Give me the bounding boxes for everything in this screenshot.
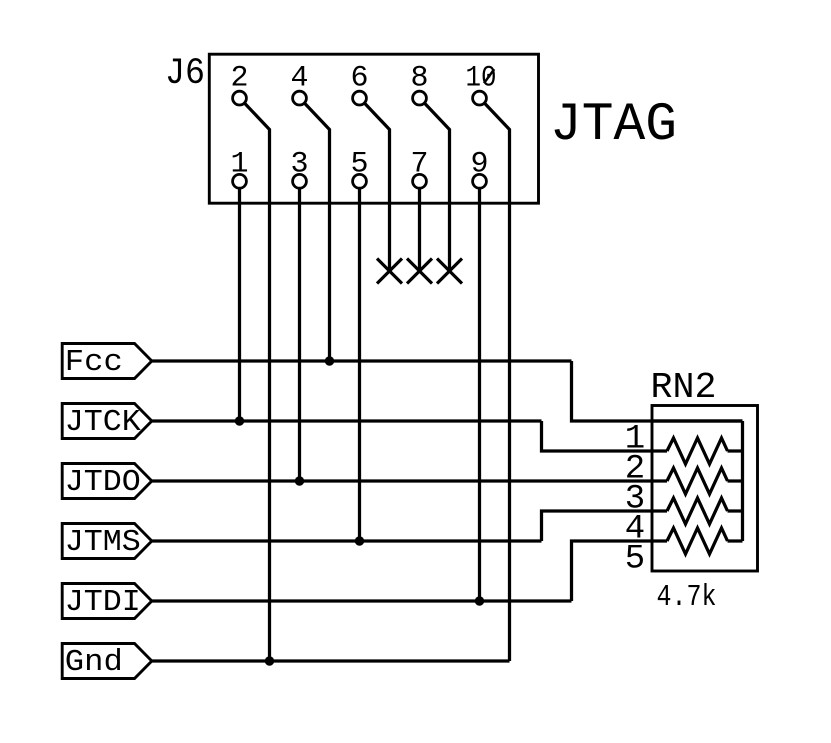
wire from pin 9 straight down <box>478 188 481 601</box>
wire from pin 7 straight down <box>418 188 421 271</box>
wire net JTCK horizontal <box>152 419 542 422</box>
pin 10 of J6 (top row) <box>466 61 497 105</box>
wire from pin 2: diagonal then vertical down <box>244 103 269 661</box>
svg-text:J6: J6 <box>165 53 205 95</box>
wire net Gnd horizontal <box>152 659 510 662</box>
wire net JTDO horizontal to RN2 pin 3 <box>152 479 667 482</box>
resistor RN2 element pin 5 to common <box>667 528 743 554</box>
wire net JTDI horizontal <box>152 599 572 602</box>
wire net JTDI step up to RN2 pin 5 <box>572 541 668 601</box>
resistor RN2 element pin 3 to common <box>667 468 743 494</box>
pin 4 of J6 (top row) <box>290 61 308 105</box>
svg-text:JTDO: JTDO <box>65 465 141 500</box>
pin 6 of J6 (top row) <box>350 61 368 105</box>
junction Fcc/pin4 <box>325 356 334 365</box>
no-connect X on pin 6 <box>377 259 402 284</box>
net flag Fcc <box>62 344 152 381</box>
wire from pin 4: diagonal then vertical down <box>304 103 329 361</box>
svg-text:4.7k: 4.7k <box>657 580 717 615</box>
pin 7 of J6 (bottom row) <box>410 148 428 189</box>
wire from pin 5 straight down <box>358 188 361 541</box>
wire net JTMS horizontal <box>152 539 542 542</box>
svg-text:Fcc: Fcc <box>65 345 123 380</box>
pin 1 of J6 (bottom row) <box>230 148 248 189</box>
wire net JTMS step up to RN2 pin 4 <box>542 511 668 541</box>
net flag JTCK <box>62 404 152 441</box>
RN2 pin 1 common lead <box>652 419 743 422</box>
resistor network RN2 body <box>652 406 758 572</box>
pin 5 of J6 (bottom row) <box>350 148 368 189</box>
RN2 common bus <box>741 421 744 541</box>
svg-text:JTMS: JTMS <box>65 525 141 560</box>
junction Gnd/pin2 <box>265 656 274 665</box>
junction JTDO/pin3 <box>295 476 304 485</box>
net flag JTDO <box>62 464 152 501</box>
wire from pin 3 straight down <box>298 188 301 481</box>
net flag JTDI <box>62 584 152 621</box>
pin 2 of J6 (top row) <box>230 61 248 105</box>
wire from pin 6: diagonal then vertical down <box>364 103 389 271</box>
wire from pin 1 straight down <box>238 188 241 421</box>
wire from pin 8: diagonal then vertical down <box>424 103 449 271</box>
pin 8 of J6 (top row) <box>410 61 428 105</box>
resistor RN2 element pin 4 to common <box>667 498 743 524</box>
pin 3 of J6 (bottom row) <box>290 148 308 189</box>
connector J6 body <box>209 54 538 203</box>
junction JTCK/pin1 <box>235 416 244 425</box>
net flag JTMS <box>62 524 152 561</box>
resistor RN2 element pin 2 to common <box>667 438 743 464</box>
svg-text:JTDI: JTDI <box>65 585 141 620</box>
svg-text:JTAG: JTAG <box>550 95 677 156</box>
pin 9 of J6 (bottom row) <box>470 148 488 189</box>
junction JTDI/pin9 <box>475 596 484 605</box>
svg-text:Gnd: Gnd <box>65 645 123 680</box>
junction JTMS/pin5 <box>355 536 364 545</box>
svg-text:JTCK: JTCK <box>65 405 141 440</box>
no-connect X on pin 7 <box>407 259 432 284</box>
net flag Gnd <box>62 644 152 681</box>
svg-text:5: 5 <box>625 541 645 579</box>
wire from pin 10: diagonal then vertical down <box>484 103 509 661</box>
wire net Fcc horizontal <box>152 359 572 362</box>
wire net Fcc step down to RN2 pin 1 <box>572 361 743 421</box>
wire net JTCK step down to RN2 pin 2 <box>542 421 668 451</box>
no-connect X on pin 8 <box>437 259 462 284</box>
svg-text:RN2: RN2 <box>651 367 717 408</box>
